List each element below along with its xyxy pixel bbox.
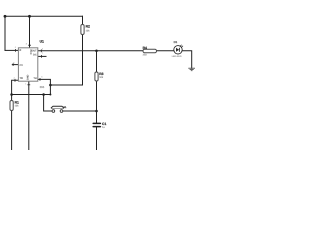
svg-text:D1: D1 xyxy=(174,40,178,44)
svg-text:R2: R2 xyxy=(86,24,90,28)
svg-text:GND: GND xyxy=(26,74,29,80)
svg-text:OUT: OUT xyxy=(31,50,37,53)
svg-text:R: R xyxy=(20,49,22,52)
svg-text:R4: R4 xyxy=(143,46,147,50)
svg-text:CV: CV xyxy=(20,64,24,67)
svg-text:555: 555 xyxy=(40,86,45,89)
svg-text:U1: U1 xyxy=(40,40,44,44)
svg-text:TH: TH xyxy=(33,77,37,80)
svg-text:LED-RED: LED-RED xyxy=(172,55,182,58)
svg-text:220: 220 xyxy=(143,54,148,57)
svg-text:DC: DC xyxy=(33,53,37,56)
svg-text:TR: TR xyxy=(20,77,24,80)
